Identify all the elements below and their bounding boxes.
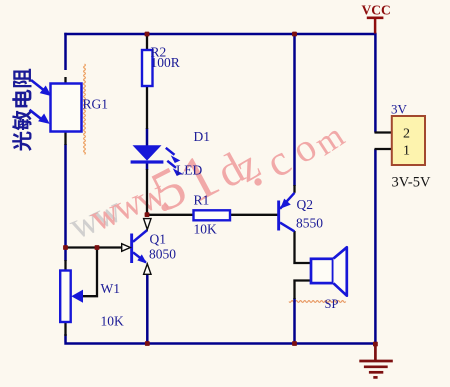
wire base Q1 bbox=[66, 246, 123, 248]
watermark squiggle near RG1 bbox=[84, 64, 86, 154]
node bottom rail / Q1 emitter bbox=[145, 341, 150, 346]
wire left rail bottom corner bbox=[64, 334, 377, 344]
ground bbox=[359, 345, 393, 378]
pin RG1 bottom bbox=[64, 131, 66, 145]
svg-text:10K: 10K bbox=[194, 222, 218, 237]
svg-text:Q1: Q1 bbox=[150, 232, 167, 247]
svg-text:W1: W1 bbox=[101, 281, 121, 296]
wire left rail mid bbox=[64, 144, 67, 249]
wire left rail upper bbox=[64, 33, 67, 70]
pin R2 top bbox=[146, 34, 148, 51]
speaker SP bbox=[311, 247, 347, 295]
resistor R2 bbox=[142, 50, 153, 86]
wire top rail bbox=[64, 33, 375, 36]
svg-text:3V-5V: 3V-5V bbox=[392, 175, 431, 191]
wire R1 left bbox=[147, 214, 194, 216]
wire SP bottom bbox=[293, 281, 311, 300]
pin R2 bottom bbox=[146, 86, 148, 130]
wire R1 right to Q2 bbox=[230, 214, 278, 216]
resistor R1 bbox=[194, 210, 231, 220]
pin RG1 top bbox=[64, 77, 66, 84]
Q1 base pin arrow bbox=[122, 244, 131, 252]
svg-text:VCC: VCC bbox=[362, 3, 391, 18]
wire VCC rail down to Q2 bbox=[293, 33, 296, 186]
wire right rail lower bbox=[374, 149, 377, 345]
pin LED cathode bbox=[146, 169, 148, 213]
node LED cathode / R1 bbox=[145, 212, 150, 217]
wire Q1 emitter to rail bbox=[146, 274, 149, 344]
svg-text:SP: SP bbox=[325, 297, 339, 311]
svg-text:100R: 100R bbox=[151, 55, 180, 70]
node base wire / left rail bbox=[63, 245, 68, 250]
svg-text:1: 1 bbox=[403, 144, 410, 159]
transistor Q1 (8050 NPN) bbox=[130, 230, 147, 264]
wire speaker to rail bbox=[293, 298, 296, 344]
node bottom rail / speaker bbox=[292, 341, 297, 346]
label 光敏电阻 (photoresistor, vertical) bbox=[12, 69, 31, 151]
wire left rail to W1 bbox=[64, 247, 67, 261]
photoresistor RG1 bbox=[30, 80, 82, 132]
VCC power symbol bbox=[367, 18, 384, 34]
svg-text:LED: LED bbox=[176, 163, 202, 178]
svg-text:RG1: RG1 bbox=[83, 97, 109, 112]
svg-text:8550: 8550 bbox=[296, 216, 323, 231]
pin W1 bottom bbox=[64, 322, 66, 337]
svg-text:8050: 8050 bbox=[149, 247, 176, 262]
Q1 collector pin arrow bbox=[144, 219, 151, 230]
watermark squiggle under SP bbox=[289, 301, 346, 303]
connector J (3V) bbox=[392, 116, 425, 165]
svg-text:D1: D1 bbox=[194, 129, 211, 144]
pin conn 2 bbox=[375, 131, 393, 133]
svg-text:2: 2 bbox=[403, 127, 410, 142]
wire Q2 collector to SP bbox=[293, 231, 311, 263]
svg-text:3V: 3V bbox=[391, 102, 408, 117]
watermark www.51dz.com bbox=[64, 116, 351, 248]
node top rail / Q2 emitter bbox=[292, 32, 297, 37]
svg-text:10K: 10K bbox=[101, 314, 125, 329]
svg-text:Q2: Q2 bbox=[297, 197, 314, 212]
node bottom rail / ground bbox=[373, 342, 378, 347]
transistor Q2 (8550 PNP) bbox=[277, 193, 294, 232]
node top rail / R2 bbox=[145, 32, 150, 37]
wire R2 to LED bbox=[146, 128, 149, 146]
pin W1 top bbox=[64, 260, 66, 271]
wire LED cathode stub bbox=[146, 163, 149, 170]
pin Q2 emitter bbox=[293, 185, 295, 193]
wire W1 wiper bbox=[83, 248, 97, 297]
node base wire / W1 wiper bbox=[95, 245, 100, 250]
svg-text:R1: R1 bbox=[194, 193, 210, 208]
Q1 emitter pin arrow bbox=[144, 264, 151, 274]
potentiometer W1 bbox=[60, 271, 83, 323]
pin conn 1 bbox=[375, 148, 393, 150]
wire right rail upper bbox=[374, 33, 377, 133]
LED D1 bbox=[131, 145, 183, 176]
